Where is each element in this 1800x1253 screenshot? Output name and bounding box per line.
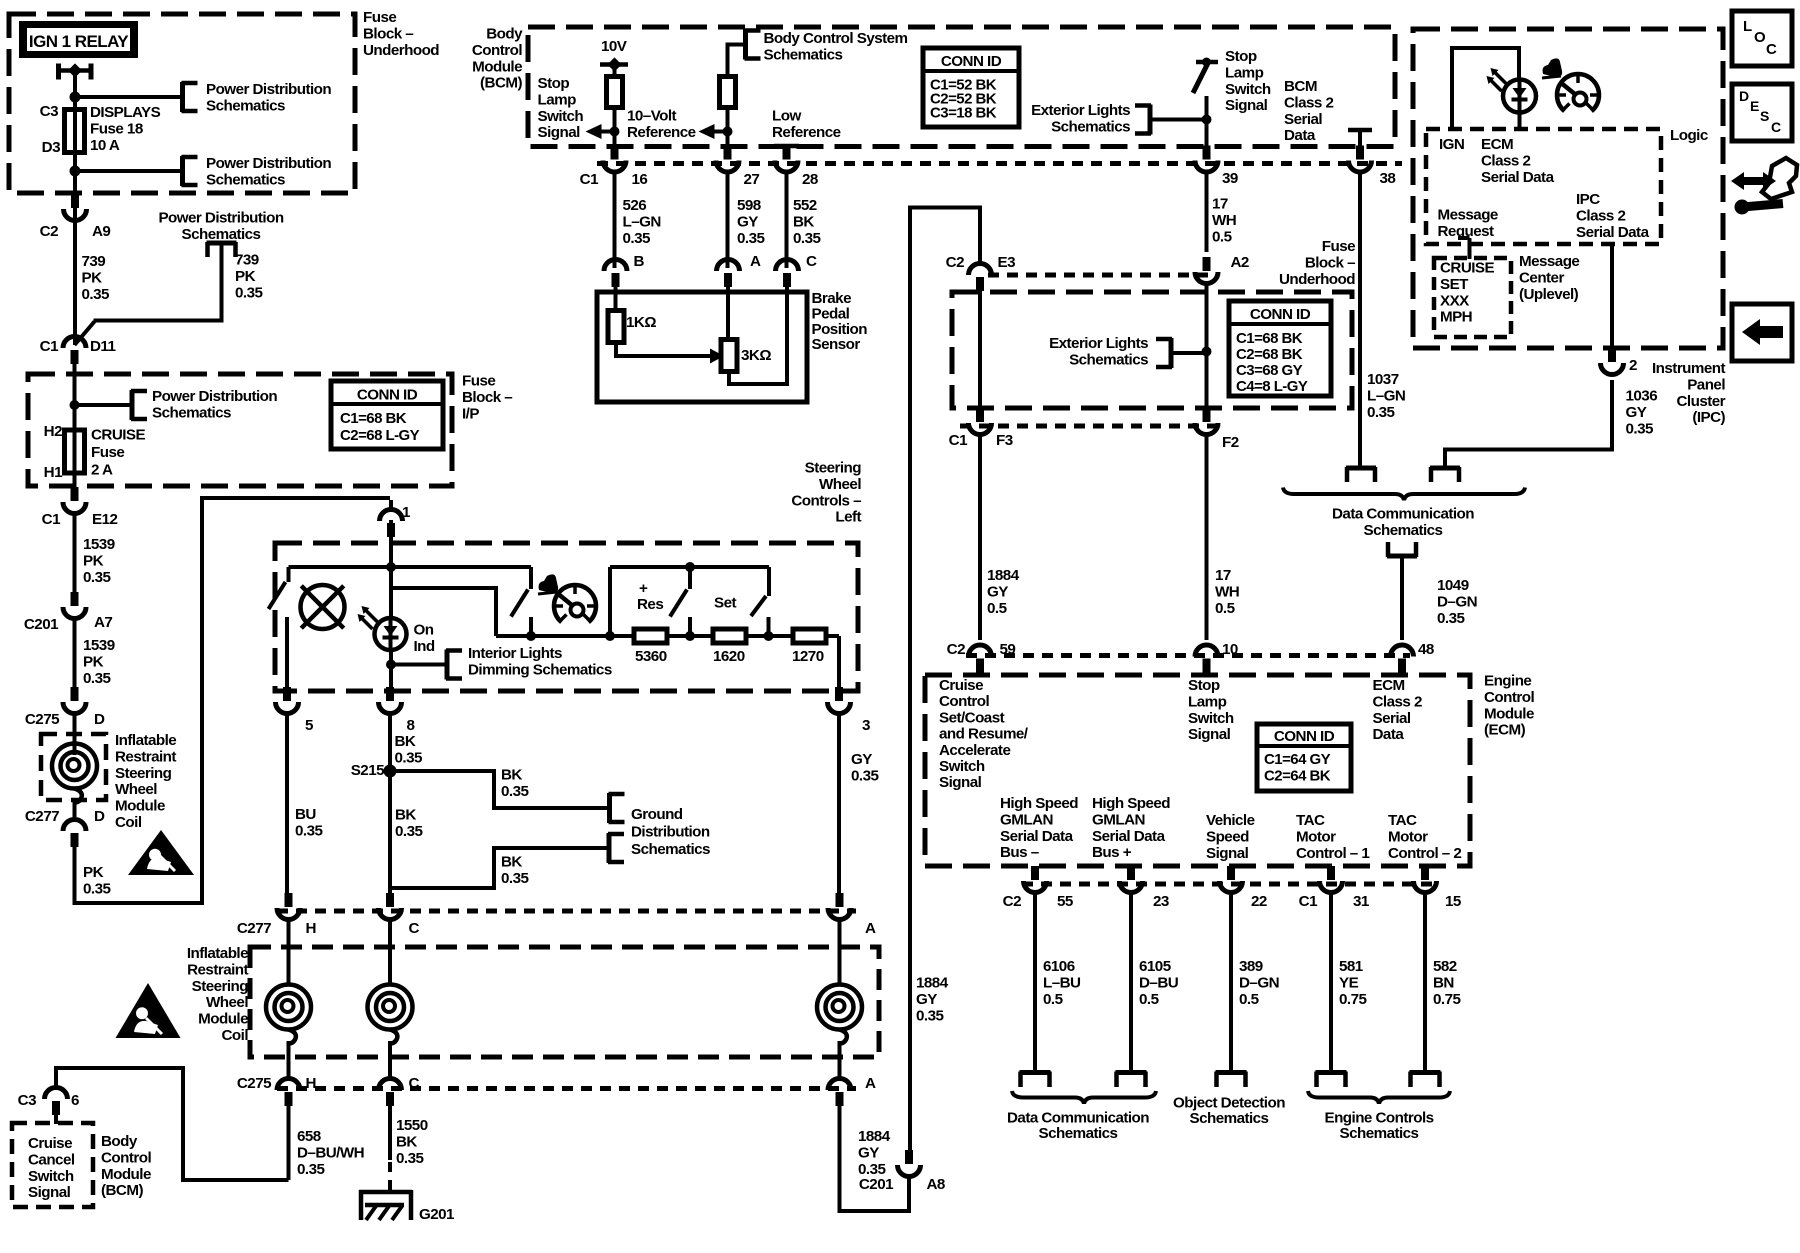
ground branch upper — [390, 771, 607, 808]
svg-text:1049: 1049 — [1437, 577, 1469, 594]
svg-text:0.35: 0.35 — [916, 1007, 944, 1024]
svg-text:BK: BK — [793, 213, 814, 230]
svg-text:Cluster: Cluster — [1677, 393, 1726, 410]
BCM resistor 2 — [720, 77, 736, 108]
junction set bottom — [764, 631, 774, 641]
wire resistor2 to connector 27 — [726, 107, 730, 148]
connector C201 A8 — [905, 1150, 913, 1164]
connector C201 A7 — [71, 592, 79, 606]
wire junction to LED — [389, 567, 393, 619]
wire 1884 long from sensor area — [910, 208, 980, 1151]
svg-text:Center: Center — [1519, 269, 1564, 286]
warning triangle 2 — [116, 983, 181, 1038]
svg-text:6: 6 — [71, 1092, 79, 1109]
svg-text:Exterior Lights: Exterior Lights — [1049, 335, 1148, 352]
svg-text:D–BU/WH: D–BU/WH — [297, 1144, 364, 1161]
svg-text:C1=64 GY: C1=64 GY — [1264, 751, 1331, 768]
wire conn5 to C277 H — [285, 712, 289, 896]
svg-text:C2: C2 — [1003, 893, 1021, 910]
svg-text:E3: E3 — [998, 254, 1016, 271]
svg-text:Control – 1: Control – 1 — [1296, 845, 1370, 862]
hand double arrow icon — [1731, 172, 1776, 190]
wire C2-A9 down to C1-D11 — [73, 206, 77, 345]
svg-text:A8: A8 — [927, 1176, 945, 1193]
svg-text:A2: A2 — [1231, 254, 1249, 271]
speedometer icon steering — [554, 585, 596, 622]
svg-text:Class 2: Class 2 — [1576, 207, 1625, 224]
svg-text:(BCM): (BCM) — [480, 75, 522, 92]
body control system reference bracket — [743, 30, 748, 60]
svg-text:0.5: 0.5 — [1043, 991, 1064, 1008]
terminal 6105 — [1116, 1070, 1147, 1075]
svg-text:17: 17 — [1215, 567, 1231, 584]
svg-text:Schematics: Schematics — [1364, 522, 1443, 539]
terminal 581 — [1316, 1070, 1347, 1075]
junction at bracket 3 — [70, 400, 80, 410]
CONN ID box underhood 2 — [1229, 301, 1331, 396]
svg-text:WH: WH — [1215, 583, 1239, 600]
fuse CRUISE 2A — [73, 428, 77, 487]
svg-text:Module: Module — [1484, 705, 1534, 722]
connector 2 — [1608, 348, 1616, 362]
svg-text:Cruise: Cruise — [28, 1135, 72, 1152]
junction dot stop lamp — [1202, 115, 1212, 125]
svg-text:C275: C275 — [237, 1075, 272, 1092]
brake pedal position sensor box — [597, 292, 807, 402]
svg-text:PK: PK — [82, 269, 103, 286]
svg-text:Switch: Switch — [1225, 81, 1271, 98]
connector C275 A — [828, 1079, 851, 1091]
svg-text:Cruise: Cruise — [939, 677, 983, 694]
svg-text:17: 17 — [1212, 196, 1228, 213]
svg-text:YE: YE — [1339, 974, 1359, 991]
svg-text:1884: 1884 — [858, 1128, 891, 1145]
wire cruise cancel path — [56, 1068, 289, 1180]
warning triangle 1 — [128, 830, 194, 875]
svg-text:D11: D11 — [90, 338, 116, 355]
svg-text:+: + — [639, 580, 648, 597]
svg-text:GMLAN: GMLAN — [1000, 811, 1053, 828]
svg-text:Left: Left — [835, 509, 861, 526]
svg-text:1KΩ: 1KΩ — [626, 314, 656, 331]
wire C277C to coil — [388, 918, 392, 985]
connector F2 — [1203, 408, 1211, 422]
svg-text:Switch: Switch — [1188, 710, 1234, 727]
connector C2 A9 — [71, 194, 79, 208]
svg-text:Switch: Switch — [939, 758, 985, 775]
svg-text:0.35: 0.35 — [83, 670, 111, 687]
svg-text:and Resume/: and Resume/ — [939, 726, 1029, 743]
svg-text:PK: PK — [235, 268, 256, 285]
wire 28 to C — [785, 172, 789, 268]
wire A2 to F2 — [1205, 284, 1209, 408]
svg-text:1037: 1037 — [1367, 371, 1399, 388]
svg-text:0.75: 0.75 — [1433, 991, 1461, 1008]
svg-text:Data: Data — [1373, 726, 1405, 743]
svg-text:Lamp: Lamp — [1225, 64, 1264, 81]
svg-text:0.35: 0.35 — [1626, 420, 1654, 437]
wire 27 to A — [726, 172, 730, 268]
svg-text:Signal: Signal — [1225, 97, 1268, 114]
wire 6105 — [1129, 891, 1133, 1072]
svg-text:Interior Lights: Interior Lights — [468, 645, 562, 662]
svg-text:Serial Data: Serial Data — [1000, 828, 1074, 845]
svg-text:C3: C3 — [18, 1092, 36, 1109]
svg-text:Wheel: Wheel — [115, 781, 157, 798]
svg-text:23: 23 — [1153, 893, 1169, 910]
power distribution reference bracket 1 — [180, 82, 185, 112]
svg-text:0.35: 0.35 — [1367, 404, 1395, 421]
svg-text:Bus –: Bus – — [1000, 844, 1039, 861]
wire B into 1K — [614, 285, 618, 312]
svg-text:GY: GY — [916, 991, 937, 1008]
exterior lights reference bracket 2 — [1169, 338, 1174, 368]
svg-text:Message: Message — [1519, 253, 1579, 270]
svg-text:C3: C3 — [40, 103, 58, 120]
backlight lamp — [301, 585, 345, 629]
svg-text:O: O — [1754, 29, 1766, 46]
connector C277 H — [285, 893, 293, 907]
svg-text:55: 55 — [1057, 893, 1074, 910]
svg-text:582: 582 — [1433, 958, 1457, 975]
wire E12 to C201 — [73, 512, 77, 592]
connector C275 C — [379, 1079, 402, 1091]
wire to power distribution bracket 2 — [75, 169, 182, 173]
junction S215 — [384, 765, 397, 778]
wiper arrow to 3K — [616, 343, 711, 357]
brace engine controls — [1308, 1091, 1450, 1104]
svg-text:High Speed: High Speed — [1000, 795, 1078, 812]
svg-text:8: 8 — [407, 717, 415, 734]
connector 27 — [724, 146, 732, 160]
svg-text:Data Communication: Data Communication — [1332, 506, 1474, 523]
svg-text:D3: D3 — [42, 139, 60, 156]
svg-text:D: D — [94, 808, 105, 825]
wire coil H down — [287, 1041, 291, 1080]
svg-text:S: S — [1760, 108, 1769, 124]
wire LED bottom — [389, 649, 393, 688]
svg-text:0.35: 0.35 — [793, 230, 821, 247]
wire stop lamp switch down — [1205, 96, 1209, 148]
wire 6106 — [1033, 891, 1037, 1072]
svg-text:Schematics: Schematics — [1039, 1125, 1118, 1142]
svg-text:48: 48 — [1418, 641, 1434, 658]
svg-text:1: 1 — [402, 504, 411, 521]
brace data communication — [1283, 488, 1525, 501]
svg-text:0.35: 0.35 — [395, 823, 423, 840]
wire conn3 to C277 A — [837, 712, 841, 896]
svg-text:TAC: TAC — [1388, 812, 1417, 829]
svg-text:GY: GY — [737, 213, 758, 230]
svg-text:C: C — [409, 920, 420, 937]
fuse block - underhood dashed box — [9, 14, 355, 193]
wire 1884 down from C275A — [840, 1103, 910, 1211]
svg-text:Vehicle: Vehicle — [1206, 812, 1255, 829]
svg-text:Control: Control — [939, 693, 989, 710]
svg-text:MPH: MPH — [1440, 309, 1472, 326]
steering coil C — [368, 985, 413, 1030]
junction dot arrow 2 — [723, 127, 733, 137]
body control module dashed box — [528, 27, 1395, 147]
svg-text:Fuse: Fuse — [91, 444, 124, 461]
interior lights reference bracket — [445, 650, 450, 680]
svg-text:ECM: ECM — [1481, 136, 1513, 153]
svg-text:Switch: Switch — [538, 108, 584, 125]
svg-text:C1: C1 — [40, 338, 59, 355]
svg-text:Controls –: Controls – — [791, 492, 861, 509]
svg-text:581: 581 — [1339, 958, 1364, 975]
connector 23 — [1127, 866, 1135, 880]
svg-text:BN: BN — [1433, 974, 1454, 991]
svg-text:Body Control System: Body Control System — [764, 30, 908, 47]
svg-text:552: 552 — [793, 197, 817, 214]
wire bracket to stop lamp junction — [1150, 118, 1207, 122]
resistor 1270 — [793, 629, 826, 643]
svg-text:Module: Module — [198, 1011, 248, 1028]
svg-text:59: 59 — [1000, 641, 1016, 658]
svg-text:15: 15 — [1445, 893, 1462, 910]
svg-text:0.35: 0.35 — [83, 569, 111, 586]
svg-text:Ind: Ind — [414, 638, 435, 655]
wire 581 — [1329, 891, 1333, 1072]
svg-text:PK: PK — [83, 552, 104, 569]
svg-text:31: 31 — [1353, 893, 1370, 910]
wire C277H to coil — [287, 918, 291, 985]
svg-text:1884: 1884 — [987, 567, 1020, 584]
svg-text:10: 10 — [1222, 641, 1238, 658]
svg-text:Schematics: Schematics — [631, 841, 710, 858]
connector C2 E3 — [969, 264, 992, 276]
res top feed — [608, 567, 612, 636]
svg-text:Stop: Stop — [538, 75, 570, 92]
svg-text:C1=68 BK: C1=68 BK — [1236, 330, 1303, 347]
svg-text:C1: C1 — [1299, 893, 1318, 910]
wire resistor2 up to bracket — [728, 45, 744, 79]
svg-text:739: 739 — [235, 252, 259, 269]
svg-text:BK: BK — [396, 1133, 417, 1150]
feed bus left — [289, 565, 392, 569]
svg-text:Fuse: Fuse — [363, 9, 396, 26]
wire C1-D11 into IP fuse block — [73, 360, 77, 440]
wire IPC class2 to conn 2 — [1610, 244, 1614, 350]
svg-text:38: 38 — [1380, 170, 1396, 187]
wire coil 1 down — [73, 800, 77, 822]
wire from power distribution down — [94, 243, 222, 321]
wire 582 — [1423, 891, 1427, 1072]
svg-text:F2: F2 — [1222, 434, 1239, 451]
svg-text:Engine Controls: Engine Controls — [1324, 1110, 1433, 1127]
svg-text:0.35: 0.35 — [623, 230, 651, 247]
junction res top — [685, 562, 695, 572]
svg-text:Motor: Motor — [1388, 828, 1428, 845]
svg-text:H1: H1 — [44, 464, 63, 481]
junction dot arrow 1 — [610, 127, 620, 137]
BCM resistor 1 — [607, 77, 623, 108]
fuse F18 DISPLAYS — [73, 109, 77, 153]
wire relay to fuse C3 — [73, 70, 77, 111]
connector C275 D — [71, 687, 79, 701]
svg-text:XXX: XXX — [1440, 292, 1469, 309]
svg-text:Inflatable: Inflatable — [187, 945, 248, 962]
svg-text:C275: C275 — [25, 711, 60, 728]
wire 38 inside BCM — [1358, 130, 1362, 148]
svg-text:Wheel: Wheel — [819, 476, 861, 493]
svg-text:GY: GY — [1626, 404, 1647, 421]
svg-text:0.35: 0.35 — [297, 1161, 325, 1178]
svg-text:Cancel: Cancel — [28, 1151, 75, 1168]
DESC box — [1732, 84, 1792, 141]
power distribution reference bracket 3 — [130, 390, 135, 420]
stop lamp switch symbol — [1196, 60, 1218, 65]
signal arrow left 2 — [699, 124, 715, 139]
svg-text:0.5: 0.5 — [1215, 600, 1236, 617]
svg-text:0.35: 0.35 — [82, 286, 110, 303]
wire F2 to 10 — [1205, 433, 1209, 640]
connector row F3-F2 dotted — [960, 424, 1218, 429]
connector C277 A — [836, 893, 844, 907]
svg-text:0.35: 0.35 — [295, 822, 323, 839]
fuse block I/P dashed box — [28, 374, 452, 486]
junction res-set feed bottom — [605, 631, 615, 641]
svg-text:10–Volt: 10–Volt — [627, 108, 677, 125]
svg-text:27: 27 — [744, 171, 760, 188]
connector 15 — [1421, 866, 1429, 880]
connector 10 — [1195, 645, 1218, 657]
wire 28 stub inside BCM — [774, 144, 799, 149]
svg-text:H: H — [306, 1075, 316, 1092]
svg-text:10V: 10V — [601, 38, 628, 55]
svg-text:1620: 1620 — [713, 648, 745, 665]
svg-text:CRUISE: CRUISE — [1440, 260, 1495, 277]
svg-text:A: A — [865, 1075, 876, 1092]
svg-text:739: 739 — [82, 253, 106, 270]
svg-text:C3=18 BK: C3=18 BK — [930, 105, 997, 122]
svg-text:Instrument: Instrument — [1652, 360, 1725, 377]
connector C1 E12 — [71, 487, 79, 501]
svg-text:Fuse: Fuse — [1322, 238, 1355, 255]
connector 31 — [1327, 866, 1335, 880]
svg-text:C: C — [1766, 41, 1777, 58]
svg-text:0.5: 0.5 — [1212, 228, 1233, 245]
svg-text:Power Distribution: Power Distribution — [206, 81, 331, 98]
svg-text:5: 5 — [305, 717, 314, 734]
svg-text:Accelerate: Accelerate — [939, 742, 1010, 759]
wire 10V to resistor — [613, 65, 617, 79]
wire C277-D down and over to steering controls — [75, 498, 391, 903]
connector C1 F3 — [976, 408, 984, 422]
wire A into 3K — [726, 285, 730, 341]
connector row C277 dotted — [277, 909, 856, 914]
data comm down bracket — [1387, 554, 1417, 559]
svg-text:1550: 1550 — [396, 1117, 428, 1134]
svg-text:Stop: Stop — [1188, 677, 1220, 694]
svg-text:Schematics: Schematics — [182, 226, 261, 243]
svg-text:Body: Body — [486, 26, 523, 43]
svg-text:B: B — [634, 253, 645, 270]
svg-text:0.35: 0.35 — [396, 1150, 424, 1167]
wire to connector 48 — [1400, 556, 1404, 640]
svg-text:Lamp: Lamp — [538, 91, 577, 108]
svg-text:0.35: 0.35 — [1437, 610, 1465, 627]
Set switch — [767, 567, 771, 596]
svg-text:Schematics: Schematics — [206, 171, 285, 188]
svg-text:Serial: Serial — [1373, 710, 1411, 727]
wire coil A down — [838, 1041, 842, 1080]
svg-text:526: 526 — [623, 197, 647, 214]
svg-text:Signal: Signal — [1188, 726, 1231, 743]
ground G201 symbol — [359, 1190, 412, 1195]
svg-text:C2=64 BK: C2=64 BK — [1264, 768, 1331, 785]
svg-text:Engine: Engine — [1484, 673, 1531, 690]
svg-text:C2: C2 — [947, 641, 965, 658]
svg-text:1270: 1270 — [792, 648, 824, 665]
svg-text:Panel: Panel — [1687, 376, 1725, 393]
logic dashed box — [1426, 129, 1661, 244]
wire 1550 down from C275C — [388, 1103, 392, 1160]
terminal 389 — [1216, 1070, 1247, 1075]
connector 22 — [1227, 866, 1235, 880]
svg-text:G201: G201 — [419, 1206, 455, 1223]
svg-text:D: D — [1739, 88, 1749, 104]
junction below conn 1 — [386, 562, 396, 572]
svg-text:0.35: 0.35 — [737, 230, 765, 247]
ground bracket upper — [607, 793, 612, 823]
svg-text:BK: BK — [501, 854, 522, 871]
svg-text:0.35: 0.35 — [501, 783, 529, 800]
svg-text:39: 39 — [1222, 170, 1238, 187]
svg-text:Lamp: Lamp — [1188, 693, 1227, 710]
svg-text:Data: Data — [1284, 127, 1316, 144]
svg-text:L–GN: L–GN — [1367, 387, 1405, 404]
junction LED bottom — [386, 660, 396, 670]
wire resistor1 to connector 16 — [613, 107, 617, 148]
svg-text:Schematics: Schematics — [206, 97, 285, 114]
message request link — [1468, 238, 1472, 259]
svg-text:Schematics: Schematics — [1190, 1110, 1269, 1127]
svg-text:Distribution: Distribution — [631, 824, 710, 841]
svg-text:BCM: BCM — [1284, 78, 1317, 95]
svg-text:E12: E12 — [92, 511, 117, 528]
connector C — [776, 260, 799, 272]
svg-text:CONN ID: CONN ID — [357, 387, 418, 404]
steering coil H — [266, 985, 311, 1030]
svg-text:Power Distribution: Power Distribution — [206, 155, 331, 172]
svg-text:Underhood: Underhood — [363, 42, 439, 59]
svg-text:Coil: Coil — [222, 1027, 249, 1044]
wire conn2 to terminal — [1445, 380, 1612, 466]
svg-text:Restraint: Restraint — [187, 961, 248, 978]
svg-text:Steering: Steering — [115, 765, 172, 782]
svg-text:22: 22 — [1251, 893, 1267, 910]
wire LED to logic box — [1518, 112, 1522, 129]
svg-text:598: 598 — [737, 197, 761, 214]
svg-text:Underhood: Underhood — [1279, 271, 1355, 288]
svg-text:Serial: Serial — [1284, 111, 1322, 128]
svg-text:Schematics: Schematics — [1051, 118, 1130, 135]
svg-text:C: C — [806, 253, 817, 270]
svg-text:D–BU: D–BU — [1139, 974, 1179, 991]
svg-text:Reference: Reference — [627, 124, 696, 141]
wire 39 to A2 — [1205, 172, 1209, 252]
wire S215 down — [388, 771, 392, 888]
wire into coil 1 — [73, 712, 77, 755]
CONN ID box BCM — [923, 48, 1019, 127]
wire E3 to F3 — [978, 282, 982, 408]
svg-text:10 A: 10 A — [90, 137, 120, 154]
svg-text:CONN ID: CONN ID — [941, 53, 1002, 70]
wire left switch to conn 5 — [285, 617, 289, 688]
interior lights wire — [391, 663, 445, 667]
